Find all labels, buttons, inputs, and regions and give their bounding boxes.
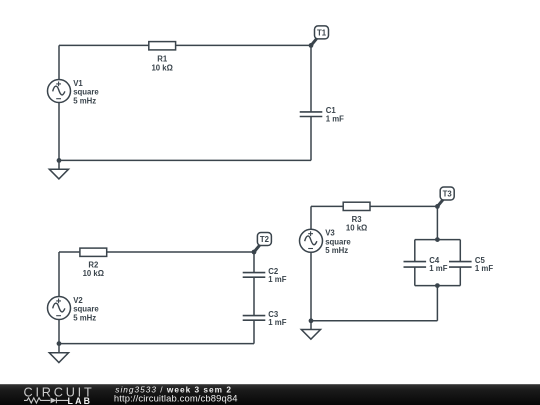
svg-text:T1: T1 <box>317 28 327 37</box>
wire right circuit1 upper <box>310 45 312 112</box>
svg-text:5 mHz: 5 mHz <box>325 246 348 255</box>
ground circuit3 <box>301 321 320 339</box>
wire bottom circuit2 <box>59 343 254 345</box>
footer bar <box>0 384 540 405</box>
wire left circuit1 lower <box>58 103 60 161</box>
wire left circuit3 upper <box>310 206 312 229</box>
svg-text:1 mF: 1 mF <box>326 114 344 123</box>
ground circuit2 <box>49 344 68 363</box>
wire left circuit2 lower <box>58 320 60 344</box>
footer logo icon: resistor zigzag and diode <box>24 398 68 404</box>
svg-text:R1: R1 <box>157 55 168 64</box>
resistor R1 body <box>149 42 176 50</box>
wire right circuit2 segments <box>253 252 255 344</box>
wire bottom circuit3 <box>311 320 437 322</box>
svg-text:10 kΩ: 10 kΩ <box>83 269 104 278</box>
svg-text:V2: V2 <box>73 296 83 305</box>
wire top circuit3 <box>311 205 437 207</box>
junction dot ground3 <box>309 318 314 323</box>
svg-text:square: square <box>73 305 99 314</box>
svg-text:1 mF: 1 mF <box>429 264 447 273</box>
parallel block left segments (C4 branch) <box>414 240 416 286</box>
capacitor C5 plates <box>449 262 472 268</box>
junction dot T2 <box>252 250 257 255</box>
voltage source V1 symbol <box>48 80 71 103</box>
footer logo diode triangle <box>51 398 57 404</box>
svg-text:V1: V1 <box>73 79 83 88</box>
node flag T3 <box>437 187 454 206</box>
capacitor C3 plates <box>243 316 266 321</box>
capacitor C1 plates <box>300 112 323 117</box>
parallel block bottom wire <box>415 285 461 287</box>
node flag T2 <box>254 233 271 253</box>
svg-text:10 kΩ: 10 kΩ <box>151 63 172 72</box>
wire left circuit1 upper <box>58 45 60 79</box>
parallel block top wire <box>415 239 461 241</box>
wire left circuit2 upper <box>58 252 60 297</box>
wire bottom circuit1 <box>59 159 311 161</box>
voltage source V3 symbol <box>300 229 323 252</box>
junction dot T1 <box>309 43 314 48</box>
svg-text:10 kΩ: 10 kΩ <box>346 224 367 233</box>
svg-text:5 mHz: 5 mHz <box>73 313 96 322</box>
capacitor C2 plates <box>243 273 266 278</box>
junction dot ground2 <box>57 341 62 346</box>
svg-text:T2: T2 <box>260 235 270 244</box>
svg-text:http://circuitlab.com/cb89q84: http://circuitlab.com/cb89q84 <box>114 393 238 404</box>
resistor R3 body <box>343 202 370 210</box>
svg-text:1 mF: 1 mF <box>268 318 286 327</box>
svg-text:R2: R2 <box>88 260 99 269</box>
voltage source V2 symbol <box>48 297 71 320</box>
node flag T1 <box>311 26 329 46</box>
junction dot block top <box>435 237 440 242</box>
svg-text:LAB: LAB <box>68 396 93 405</box>
resistor R2 body <box>80 248 107 256</box>
wire top circuit1 <box>59 44 311 46</box>
junction dot T3 <box>435 204 440 209</box>
svg-text:square: square <box>325 237 351 246</box>
svg-text:V3: V3 <box>325 229 335 238</box>
svg-text:1 mF: 1 mF <box>268 275 286 284</box>
capacitor C4 plates <box>404 262 427 268</box>
wire top circuit2 <box>59 251 254 253</box>
svg-text:R3: R3 <box>352 215 363 224</box>
wire block bottom to ground rail <box>436 286 438 321</box>
ground circuit1 <box>49 160 68 179</box>
svg-text:1 mF: 1 mF <box>475 264 493 273</box>
junction dot block bottom <box>435 283 440 288</box>
junction dot ground1 <box>57 158 62 163</box>
parallel block right segments (C5 branch) <box>459 240 461 286</box>
svg-text:5 mHz: 5 mHz <box>73 96 96 105</box>
wire right circuit1 lower <box>310 117 312 161</box>
svg-text:T3: T3 <box>443 189 453 198</box>
wire right circuit3 into block <box>436 206 438 239</box>
wire left circuit3 lower <box>310 252 312 320</box>
svg-text:square: square <box>73 88 99 97</box>
